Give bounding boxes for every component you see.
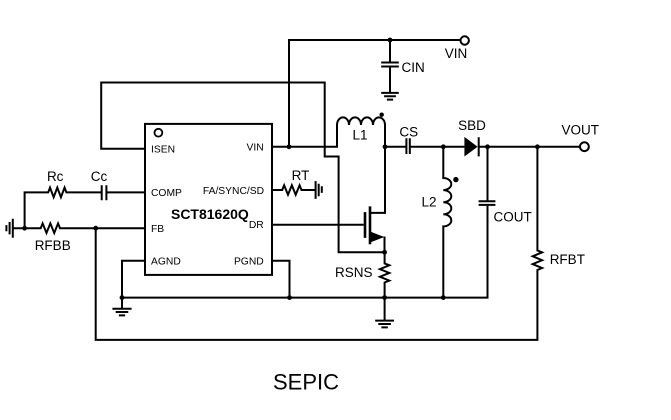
svg-text:AGND: AGND — [151, 257, 181, 268]
svg-text:RT: RT — [292, 168, 310, 183]
svg-text:SBD: SBD — [458, 118, 486, 133]
svg-text:L1: L1 — [352, 128, 367, 143]
svg-text:COUT: COUT — [494, 209, 532, 224]
svg-text:CIN: CIN — [402, 60, 425, 75]
svg-text:SEPIC: SEPIC — [273, 370, 339, 395]
svg-text:Cc: Cc — [91, 169, 108, 184]
svg-text:PGND: PGND — [234, 257, 264, 268]
svg-text:FB: FB — [151, 224, 164, 235]
svg-text:VIN: VIN — [247, 143, 264, 154]
svg-text:L2: L2 — [421, 194, 436, 209]
svg-text:FA/SYNC/SD: FA/SYNC/SD — [203, 186, 264, 197]
svg-text:RSNS: RSNS — [335, 265, 373, 280]
svg-text:VOUT: VOUT — [561, 123, 599, 138]
svg-text:CS: CS — [399, 125, 418, 140]
svg-text:ISEN: ISEN — [151, 145, 175, 156]
svg-text:RFBT: RFBT — [550, 252, 585, 267]
svg-text:SCT81620Q: SCT81620Q — [171, 206, 249, 222]
svg-text:Rc: Rc — [47, 169, 64, 184]
svg-text:DR: DR — [249, 220, 264, 231]
svg-text:RFBB: RFBB — [35, 238, 71, 253]
svg-text:COMP: COMP — [151, 188, 182, 199]
svg-text:VIN: VIN — [445, 46, 468, 61]
